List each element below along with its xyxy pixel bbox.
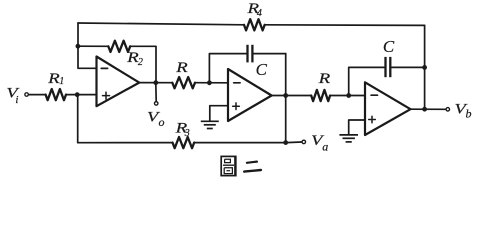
wire U1 output run left part bbox=[139, 82, 172, 84]
resistor R4 bbox=[244, 19, 265, 30]
svg-text:4: 4 bbox=[257, 8, 262, 19]
svg-text:b: b bbox=[466, 106, 472, 120]
op-amp U2 bbox=[228, 69, 272, 121]
resistor R (first) bbox=[172, 77, 195, 88]
terminal Vo bbox=[154, 102, 158, 106]
caption glyph 圖 bbox=[221, 156, 236, 176]
svg-text:R: R bbox=[317, 71, 330, 87]
wire Vo stem bbox=[155, 83, 157, 101]
wire U2 output column bbox=[285, 54, 287, 143]
svg-text:1: 1 bbox=[59, 76, 64, 87]
node junction Vb bbox=[422, 107, 427, 112]
wire R1 to non-inverting input of U1 bbox=[66, 94, 97, 96]
wire C3 right segment bbox=[392, 66, 425, 68]
U2 minus pin label bbox=[234, 82, 240, 84]
U1 minus pin label bbox=[101, 67, 107, 69]
node junction C3 right bbox=[422, 65, 427, 70]
svg-text:i: i bbox=[15, 94, 18, 106]
wire U3 plus lead and ground stem bbox=[349, 120, 365, 135]
resistor R (second) bbox=[311, 90, 330, 101]
wire right column to Vb node bbox=[424, 25, 426, 109]
wire C3 left column bbox=[349, 67, 385, 95]
wire left column top to inverting input of U1 bbox=[78, 23, 97, 68]
svg-text:R: R bbox=[47, 71, 60, 87]
wire C2 right segment bbox=[254, 53, 286, 55]
wire U3 output run to Vb bbox=[411, 108, 446, 110]
op-amp U1 bbox=[97, 57, 140, 107]
node junction U1 output bbox=[153, 80, 158, 85]
node junction Va bbox=[283, 140, 288, 145]
wire U2 output run left part bbox=[272, 95, 312, 97]
U2 plus pin label bbox=[233, 103, 240, 110]
wire U2 plus lead and ground stem bbox=[210, 106, 228, 121]
caption glyph 二 bbox=[244, 162, 261, 172]
wire top feedback right segment bbox=[265, 24, 425, 27]
wire U1 output run right part bbox=[195, 82, 228, 84]
node junction R2 tap bbox=[76, 44, 81, 49]
svg-text:3: 3 bbox=[184, 128, 190, 139]
resistor R3 bbox=[173, 137, 195, 148]
terminal Vb bbox=[446, 108, 450, 112]
node junction U2 inverting bbox=[207, 80, 212, 85]
resistor R1 bbox=[46, 89, 66, 100]
wire R2 right to U1 output column bbox=[130, 46, 156, 82]
wire Vi input run bbox=[29, 94, 46, 96]
node junction U3 inverting bbox=[346, 93, 351, 98]
capacitor C2 bbox=[248, 45, 253, 63]
wire R2 left stub bbox=[78, 45, 108, 47]
node junction U2 output bbox=[283, 93, 288, 98]
node junction A (R1 to U1+) bbox=[75, 92, 80, 97]
resistor R2 bbox=[108, 41, 130, 52]
U1 plus pin label bbox=[103, 92, 110, 99]
ground U3 bbox=[339, 135, 358, 142]
svg-text:C: C bbox=[383, 37, 395, 56]
terminal Vi bbox=[25, 93, 29, 97]
wire C2 left column bbox=[209, 54, 246, 83]
svg-text:2: 2 bbox=[138, 57, 143, 68]
terminal Va bbox=[302, 140, 306, 144]
svg-text:C: C bbox=[256, 60, 268, 79]
capacitor C3 bbox=[386, 57, 391, 77]
wire bottom rail to Va bbox=[194, 142, 286, 144]
svg-text:o: o bbox=[159, 115, 165, 129]
U3 minus pin label bbox=[371, 94, 377, 96]
ground U2 bbox=[201, 121, 219, 128]
wire U2 output run right part bbox=[330, 95, 365, 97]
U3 plus pin label bbox=[369, 116, 376, 123]
svg-text:a: a bbox=[322, 140, 328, 154]
wire Va terminal stub bbox=[286, 141, 302, 144]
svg-text:R: R bbox=[175, 60, 188, 76]
svg-text:R: R bbox=[126, 50, 139, 66]
wire top feedback left segment bbox=[78, 23, 244, 25]
wire node A column down to bottom rail bbox=[78, 95, 173, 143]
op-amp U3 bbox=[365, 82, 411, 135]
